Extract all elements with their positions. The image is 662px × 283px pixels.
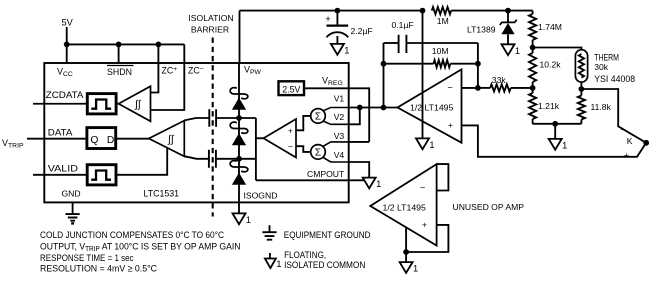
2.5V reference box — [279, 81, 305, 95]
wire 5V stub — [66, 27, 68, 44]
wire V2 pin — [349, 108, 360, 125]
svg-text:30k: 30k — [594, 62, 609, 72]
resistor R4 1.74M — [529, 14, 536, 40]
junction dot supply column — [420, 8, 426, 14]
junction dot therm top — [530, 45, 536, 51]
svg-text:ISOLATED COMMON: ISOLATED COMMON — [284, 259, 365, 270]
svg-text:5V: 5V — [62, 18, 74, 28]
resistor R1 1M in rail — [432, 7, 451, 14]
wire therm top — [533, 48, 582, 51]
op amp U2a 1/2 LT1495 (points left) — [398, 69, 462, 142]
floating common V4/CMPOUT — [363, 178, 376, 189]
sigma2 tag to V3/V4 — [323, 142, 348, 162]
junction dot bridge mid — [530, 85, 536, 91]
svg-text:2.5V: 2.5V — [282, 84, 300, 94]
resistor R7 11.8k — [580, 89, 582, 96]
svg-text:GND: GND — [62, 188, 81, 198]
wire bridge ground stub — [554, 124, 556, 139]
svg-text:Q: Q — [90, 135, 98, 146]
resistor R6 1.21k — [532, 88, 534, 93]
floating common below LT1389 — [502, 44, 515, 55]
curl squiggle 1 — [230, 88, 248, 99]
receiver comparator A1 (points left) — [119, 86, 151, 121]
wire upper coupling from A2 top corner — [184, 118, 209, 120]
floating common below 2.2uF — [331, 44, 344, 55]
svg-text:V2: V2 — [334, 112, 345, 122]
resistor R5 10.2k — [532, 48, 534, 54]
svg-text:−: − — [420, 183, 425, 193]
resistor R3 33k — [478, 87, 490, 89]
D flip-flop box — [87, 128, 116, 149]
wire VALID pin — [33, 174, 87, 176]
junction dot V1/output — [381, 105, 387, 111]
svg-text:+: + — [288, 127, 293, 136]
one-shot U1a pulse symbol — [91, 100, 111, 109]
one-shot U1a box — [87, 94, 116, 114]
rectifier diode D1 — [232, 98, 245, 109]
transmit comparator A2 (points left) — [149, 121, 185, 157]
svg-text:Σ: Σ — [315, 148, 321, 159]
svg-text:ISOLATION: ISOLATION — [188, 13, 233, 23]
junction dot U2b common — [403, 249, 409, 255]
svg-text:1: 1 — [246, 215, 251, 225]
svg-text:+: + — [422, 219, 427, 229]
svg-text:LTC1531: LTC1531 — [144, 188, 180, 198]
wire GND stub — [72, 202, 74, 213]
wire 0.1uF/10M right to - input — [477, 43, 479, 88]
svg-text:0.1µF: 0.1µF — [392, 20, 414, 30]
svg-text:−: − — [621, 125, 626, 135]
svg-text:BARRIER: BARRIER — [191, 24, 229, 34]
wire therm bottom — [580, 82, 582, 89]
wire V3 pin — [349, 141, 370, 143]
junction dot LT1389 — [505, 8, 511, 14]
wire V1 pin — [349, 107, 398, 109]
junction dot VCC — [64, 42, 70, 48]
wire bridge bottom — [533, 123, 582, 125]
svg-text:1.74M: 1.74M — [538, 22, 562, 32]
wire bus to upper dot — [239, 117, 256, 119]
svg-text:UNUSED OP AMP: UNUSED OP AMP — [453, 202, 525, 212]
svg-text:1: 1 — [562, 141, 567, 151]
svg-text:ISOGND: ISOGND — [244, 191, 278, 201]
wire V4 pin — [349, 162, 370, 178]
svg-text:1/2 LT1495: 1/2 LT1495 — [383, 202, 426, 212]
wire isolated top rail left — [240, 10, 423, 12]
svg-text:RESOLUTION = 4mV ≥ 0.5°C: RESOLUTION = 4mV ≥ 0.5°C — [40, 262, 157, 273]
svg-text:1: 1 — [344, 46, 349, 56]
wire rail 1M to zener — [451, 10, 532, 12]
svg-text:VALID: VALID — [48, 163, 79, 173]
svg-text:DATA: DATA — [48, 128, 74, 138]
svg-text:1M: 1M — [437, 16, 449, 26]
svg-text:−: − — [288, 141, 293, 151]
wire A3 output bus — [256, 137, 264, 139]
svg-text:−: − — [448, 82, 453, 92]
svg-text:33k: 33k — [492, 75, 507, 85]
svg-text:1: 1 — [413, 264, 418, 274]
one-shot U1b box — [87, 165, 116, 185]
junction dot bridge bottom — [552, 121, 558, 127]
svg-text:V4: V4 — [334, 150, 345, 160]
svg-text:11.8k: 11.8k — [591, 102, 612, 112]
svg-text:SHDN: SHDN — [107, 67, 132, 77]
svg-text:CMPOUT: CMPOUT — [307, 169, 345, 179]
isolated comparator A3 (points left) — [264, 119, 297, 158]
junction dot lower coupling — [236, 156, 242, 162]
wire ZC- into box to receiver - input — [150, 44, 184, 110]
isolation barrier dashed line — [212, 38, 214, 217]
junction dot V1/V2 — [357, 105, 363, 111]
svg-text:K: K — [627, 136, 633, 146]
wire zener stub — [507, 11, 509, 22]
junction dot thermocouple — [643, 140, 649, 146]
wire A3 - input to sigma2 — [296, 146, 311, 152]
svg-text:1: 1 — [429, 140, 434, 150]
svg-text:Σ: Σ — [315, 112, 321, 123]
junction dot minus node — [475, 85, 481, 91]
junction dot 10M left — [381, 61, 387, 67]
legend equipment ground symbol — [262, 225, 276, 239]
svg-text:D: D — [107, 135, 114, 146]
svg-text:YSI 44008: YSI 44008 — [594, 74, 635, 84]
op amp U2b 1/2 LT1495 unused (points left) — [370, 164, 436, 245]
wire A3 + input to sigma1 — [296, 116, 311, 130]
svg-text:THERM: THERM — [594, 52, 619, 62]
wire VCC stub — [66, 44, 68, 63]
svg-text:∫∫: ∫∫ — [134, 98, 142, 110]
svg-text:V1: V1 — [334, 94, 345, 104]
capacitor C3 2.2uF polarized — [327, 25, 349, 27]
svg-text:+: + — [448, 120, 453, 130]
wire bus to lower dot — [239, 158, 256, 160]
wire VPW from top rail — [239, 11, 241, 63]
svg-text:1: 1 — [515, 46, 520, 56]
coupling capacitor C2 plates — [209, 150, 216, 168]
curl squiggle 2 — [230, 122, 248, 133]
wire flip-flop to transmit amp — [116, 138, 149, 140]
junction dot 10M right — [475, 61, 481, 67]
floating common below ISOGND — [233, 213, 246, 224]
legend floating common symbol — [269, 253, 271, 259]
wire thermocouple top lead — [581, 89, 646, 143]
wire lower coupling from A2 bottom corner — [184, 156, 209, 159]
wire VTRIP / DATA pin — [27, 138, 87, 140]
wire output feedback column — [383, 43, 385, 108]
svg-text:∫∫: ∫∫ — [167, 134, 175, 146]
svg-text:EQUIPMENT GROUND: EQUIPMENT GROUND — [284, 229, 371, 240]
svg-text:1: 1 — [276, 259, 281, 270]
wire CMPOUT internal — [256, 179, 349, 181]
floating common below U2b — [400, 262, 413, 273]
resistor R2 10M — [384, 63, 434, 65]
junction dot ZC+ — [156, 42, 162, 48]
wire CMPOUT to common — [349, 179, 364, 181]
junction dot SHDN — [116, 42, 122, 48]
wire ZC+ into box to receiver + input — [150, 44, 158, 92]
sigma1 tag to V1/V2 — [323, 108, 348, 125]
wire lower coupling to column — [216, 158, 239, 160]
svg-text:10.2k: 10.2k — [540, 60, 562, 70]
wire VREG — [305, 87, 349, 89]
floating common bridge — [549, 139, 562, 150]
wire U2a - input — [462, 87, 478, 89]
zener diode LT1389 — [500, 20, 517, 25]
junction dot therm bottom — [579, 86, 585, 92]
svg-text:V3: V3 — [334, 131, 345, 141]
svg-text:LT1389: LT1389 — [467, 25, 496, 35]
wire one-shot to receiver amp — [116, 103, 119, 105]
svg-text:+: + — [325, 14, 331, 25]
wire SHDN stub — [118, 44, 120, 63]
wire U2b supply to common — [405, 227, 407, 262]
wire U2a + input to thermocouple — [462, 125, 647, 156]
U2b + tab to common — [406, 225, 448, 252]
svg-text:+: + — [624, 150, 629, 160]
curl squiggle 3 — [230, 161, 248, 172]
svg-text:2.2µF: 2.2µF — [351, 26, 373, 36]
thermistor RT1 body — [575, 50, 587, 82]
capacitor C4 0.1uF — [384, 42, 399, 44]
svg-text:1: 1 — [376, 179, 381, 189]
svg-text:ZCDATA: ZCDATA — [46, 90, 85, 100]
wire comparator bus vertical — [255, 118, 257, 180]
wire 5V rail — [67, 43, 185, 45]
rectifier diode D2 — [232, 134, 245, 145]
svg-text:1/2 LT1495: 1/2 LT1495 — [410, 103, 453, 113]
rectifier diode D3 — [232, 173, 245, 184]
U2b - feedback tab — [437, 164, 449, 190]
svg-text:10M: 10M — [432, 46, 449, 56]
junction dot 2.2uF — [335, 8, 341, 14]
equipment ground symbol at GND — [66, 214, 80, 221]
wire ZCDATA pin — [33, 103, 87, 105]
wire valid one-shot to A2 — [116, 148, 167, 175]
wire isolated rectifier column — [238, 63, 240, 213]
IC LTC1531 outline — [44, 63, 348, 202]
summer sigma2 — [311, 145, 326, 160]
coupling capacitor C1 plates — [209, 109, 216, 127]
one-shot U1b pulse symbol — [91, 171, 111, 180]
svg-text:1.21k: 1.21k — [538, 101, 560, 111]
wire rail corner to 1.74M — [532, 11, 534, 14]
junction dot upper coupling — [236, 115, 242, 121]
wire upper coupling to column — [216, 117, 239, 119]
floating common below op amp U2a — [416, 138, 429, 149]
summer sigma1 — [311, 109, 326, 124]
wire amp supply line — [422, 11, 424, 139]
wire VREG to common column — [349, 88, 370, 142]
wire 2.2uF stub — [336, 11, 338, 26]
svg-text:COLD JUNCTION COMPENSATES 0°C: COLD JUNCTION COMPENSATES 0°C TO 60°C — [40, 229, 224, 240]
